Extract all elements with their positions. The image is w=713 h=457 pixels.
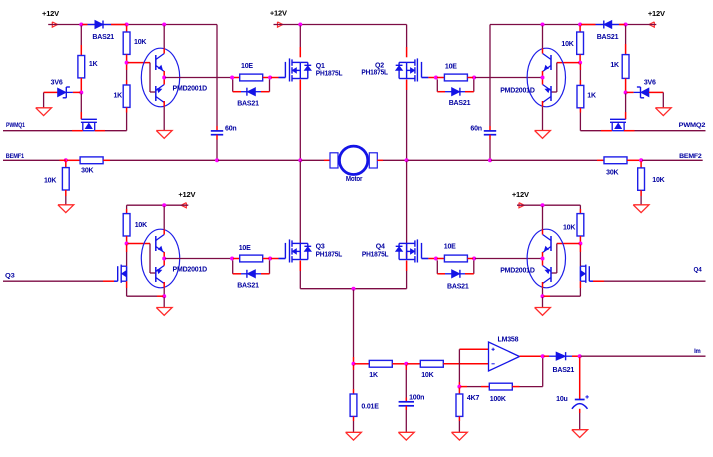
input MOSFET Q7 (Q3 net)	[118, 265, 127, 283]
net PWMQ1	[3, 113, 127, 131]
transistor pair U3 PMD2001D (lower left)	[141, 229, 207, 288]
capacitor C3 100n	[399, 365, 425, 433]
resistor R18 10K (sense)	[407, 360, 443, 379]
node BEMF2/10K junction	[639, 158, 643, 162]
zener D2 3V6 (left)	[44, 79, 81, 98]
node feedback node	[457, 385, 461, 389]
svg-text:+12V: +12V	[512, 190, 529, 199]
input MOSFET Q6 (PWMQ2)	[610, 94, 626, 131]
svg-text:+12V: +12V	[178, 190, 195, 199]
wire Q2 source down	[406, 80, 408, 160]
resistor R4 10E (Q1 gate)	[233, 63, 269, 81]
svg-text:1K: 1K	[369, 372, 378, 379]
wire motor left lead	[301, 159, 330, 161]
wire op-amp output	[520, 355, 542, 357]
svg-text:+12V: +12V	[648, 9, 665, 18]
svg-text:BEMF2: BEMF2	[679, 153, 702, 160]
power port +12V (mid right)	[512, 190, 529, 208]
power port +12V (top middle)	[270, 9, 287, 27]
wire Q8 trunk	[544, 245, 581, 297]
resistor R6 10K (top right)	[561, 26, 583, 62]
node bridge-left/motor junction	[298, 158, 302, 162]
svg-text:100n: 100n	[409, 395, 424, 402]
svg-text:Q3: Q3	[316, 244, 325, 251]
resistor R8 30K (left)	[67, 157, 110, 175]
node rail/PMD collector (mid right)	[541, 203, 545, 207]
svg-text:PMD2001D: PMD2001D	[500, 87, 535, 94]
input MOSFET Q8 (Q4 net)	[580, 265, 589, 283]
svg-text:Q1: Q1	[316, 63, 325, 70]
wire +12V top-right rail	[490, 25, 656, 127]
svg-text:1K: 1K	[89, 61, 98, 68]
svg-text:30K: 30K	[81, 168, 93, 175]
wire left bridge column lower	[299, 161, 301, 258]
wire Q1 source down	[299, 80, 301, 160]
svg-text:60n: 60n	[225, 126, 236, 133]
resistor R12 10K (lower left)	[123, 209, 147, 243]
motor M1	[330, 146, 377, 183]
wire right bridge column lower	[406, 161, 408, 258]
resistor R3 1K (divider, top left)	[113, 64, 130, 113]
wire motor right lead	[377, 159, 405, 161]
wire Q4 source down	[406, 261, 408, 289]
svg-text:10u: 10u	[556, 396, 567, 403]
resistor R17 1K (sense)	[355, 360, 406, 379]
node base junction (top right)	[578, 61, 582, 65]
node 1K/zener junction	[79, 91, 83, 95]
wire mid-right rail	[517, 205, 580, 209]
svg-text:+12V: +12V	[42, 9, 59, 18]
ground (10u)	[572, 430, 588, 438]
svg-text:10K: 10K	[135, 222, 147, 229]
ground (top right PMD)	[535, 107, 551, 139]
wire Q2 gate lead	[422, 77, 435, 79]
resistor R14 10E (Q4 gate)	[437, 244, 473, 262]
svg-text:10E: 10E	[444, 244, 456, 251]
svg-text:PWMQ1: PWMQ1	[6, 122, 25, 129]
wire +12V top-left rail	[48, 25, 217, 127]
node rail/PMD collector (mid left)	[162, 203, 166, 207]
node 1K/zener junction (right)	[624, 91, 628, 95]
power port +12V (top left)	[42, 9, 59, 27]
wire base to PMD (top left)	[128, 63, 156, 92]
svg-text:10K: 10K	[421, 372, 433, 379]
node PMD output (lower left)	[162, 257, 166, 261]
node rail/bridge-left junction	[298, 23, 302, 27]
wire bridge bottom rail	[300, 288, 406, 290]
svg-text:Q3: Q3	[5, 273, 15, 280]
power port +12V (top right)	[648, 9, 665, 27]
svg-text:0.01E: 0.01E	[361, 404, 379, 411]
svg-text:10K: 10K	[652, 177, 664, 184]
wire PMD collector to rail (top left)	[163, 26, 165, 49]
node source node (lower right)	[541, 294, 545, 298]
node Q1 gate res right	[268, 76, 272, 80]
wire PMD output to gate resistor	[165, 77, 231, 79]
wire Q3 gate lead	[271, 258, 285, 260]
svg-text:10E: 10E	[239, 245, 251, 252]
wire Q4 gate lead	[422, 258, 435, 260]
wire Q7 trunk	[127, 245, 164, 297]
diode D1 BAS21 (top left rail)	[82, 21, 125, 42]
wire sense to op-amp inverting input	[443, 363, 488, 365]
node rail/PMD collector junction	[162, 23, 166, 27]
node PMD output (lower right)	[541, 257, 545, 261]
wire base to PMD (top right)	[551, 63, 579, 92]
MOSFET Q1 PH1875L	[285, 58, 343, 81]
node PMD output (top left)	[162, 76, 166, 80]
node rail/10K junction	[125, 23, 129, 27]
wire op-amp non-inverting input	[459, 349, 488, 385]
power port +12V (mid left)	[178, 190, 195, 208]
svg-text:10K: 10K	[134, 39, 146, 46]
svg-text:PMD2001D: PMD2001D	[173, 85, 208, 92]
svg-text:BAS21: BAS21	[597, 34, 619, 41]
ground (left zener)	[36, 93, 52, 116]
MOSFET Q2 PH1875L	[361, 58, 421, 81]
wire mid-left rail	[127, 205, 189, 209]
zener D6 3V6 (right)	[627, 79, 664, 108]
svg-text:3V6: 3V6	[644, 79, 656, 86]
svg-text:BAS21: BAS21	[92, 34, 114, 41]
net Im	[581, 348, 706, 356]
svg-text:LM358: LM358	[498, 336, 519, 343]
svg-text:1K: 1K	[113, 93, 122, 100]
net Q4	[589, 267, 705, 282]
svg-text:PH1875L: PH1875L	[316, 70, 343, 77]
node Q4 gate res left	[434, 257, 438, 261]
node base junction (lower right)	[578, 242, 582, 246]
wire to 30K right	[491, 159, 597, 161]
node bridge-right/motor junction	[405, 158, 409, 162]
resistor R10 30K (right)	[597, 157, 640, 176]
transistor pair U2 PMD2001D (top right)	[500, 48, 565, 107]
net PWMQ2	[580, 113, 705, 131]
svg-text:PH1875L: PH1875L	[361, 70, 388, 77]
ground (BEMF1 10K)	[58, 205, 74, 213]
resistor R19 4K7	[456, 388, 479, 433]
resistor R15 10K (lower right)	[563, 209, 584, 243]
svg-text:10K: 10K	[563, 225, 575, 232]
svg-text:BAS21: BAS21	[447, 284, 469, 291]
MOSFET Q3 PH1875L	[285, 239, 343, 262]
capacitor C1 60n (left)	[211, 126, 237, 160]
resistor R16 0.01E shunt	[350, 365, 379, 433]
node 60n/BEMF junction (right)	[488, 158, 492, 162]
net BEMF1	[3, 153, 60, 160]
svg-text:BAS21: BAS21	[553, 367, 575, 374]
svg-text:PWMQ2: PWMQ2	[679, 122, 706, 129]
svg-text:100K: 100K	[490, 396, 506, 403]
node base junction (lower left)	[125, 242, 129, 246]
resistor R21 1K (divider, top right)	[577, 64, 596, 113]
wire BEMF1 to 60n	[110, 159, 216, 161]
diode D7 BAS21 (Q3 gate)	[233, 260, 270, 289]
op-amp U5 LM358	[489, 336, 520, 371]
ground (lower left PMD)	[156, 297, 172, 315]
resistor R9 10K (BEMF1 divider)	[44, 161, 69, 205]
diode D4 BAS21 (Q2 gate)	[437, 79, 474, 106]
ground (100n)	[398, 432, 414, 440]
node Q1 gate res left	[230, 76, 234, 80]
wire PMD collector to rail (lower left)	[163, 206, 165, 229]
ground (BEMF2 10K)	[633, 205, 649, 213]
node shunt top	[352, 362, 356, 366]
svg-text:BAS21: BAS21	[237, 101, 259, 108]
node BEMF1/10K junction	[60, 158, 68, 162]
ground (shunt)	[346, 432, 362, 440]
wire Q3 source down	[299, 261, 301, 289]
svg-text:1K: 1K	[610, 62, 619, 69]
node rail/1K junction (right)	[624, 23, 628, 27]
resistor R5 10E (Q2 gate)	[437, 64, 473, 81]
svg-text:PMD2001D: PMD2001D	[500, 268, 535, 275]
node rail/PMD collector junction (right)	[541, 23, 545, 27]
node rail/bridge-right corner wire	[406, 25, 408, 58]
svg-text:60n: 60n	[470, 126, 481, 133]
wire Q2 gate to PMD right	[475, 77, 541, 79]
diode D3 BAS21 (Q1 gate)	[233, 79, 270, 107]
svg-text:PH1875L: PH1875L	[362, 251, 389, 258]
node bridge bottom center	[352, 287, 356, 291]
wire shunt drop	[353, 290, 355, 363]
net Q3	[3, 273, 118, 282]
ground (lower right PMD)	[535, 297, 551, 315]
input MOSFET Q5 (PWMQ1)	[81, 94, 97, 131]
node source node (lower left)	[162, 294, 166, 298]
wire PMD down to source node (lower left)	[163, 288, 165, 296]
wire 60n to bridge left	[218, 159, 299, 161]
svg-text:BAS21: BAS21	[449, 100, 471, 107]
transistor pair U1 PMD2001D (top left)	[141, 48, 207, 107]
node 60n/BEMF junction (left)	[215, 158, 219, 162]
svg-text:4K7: 4K7	[467, 395, 480, 402]
resistor R7 1K (top right)	[610, 26, 629, 92]
node sense/100n junction	[404, 362, 408, 366]
wire base to PMD (lower right)	[551, 244, 579, 274]
diode D5 BAS21 (top right rail)	[581, 21, 625, 42]
wire PMD output to Q3 gate resistor	[165, 258, 231, 260]
node Q4 gate res right	[472, 257, 476, 261]
wire PMD collector to rail (lower right)	[542, 206, 544, 229]
wire base to PMD (lower left)	[128, 244, 156, 274]
svg-text:PH1875L: PH1875L	[316, 251, 343, 258]
wire top middle rail	[274, 24, 407, 26]
ground (right zener)	[655, 108, 671, 116]
node base junction (top left)	[125, 61, 129, 65]
svg-text:30K: 30K	[606, 169, 618, 176]
capacitor C4 10u (polarized)	[556, 357, 589, 430]
svg-text:10K: 10K	[561, 41, 573, 48]
node output/feedback junction	[541, 354, 545, 358]
svg-text:1K: 1K	[587, 93, 596, 100]
diode D8 BAS21 (Q4 gate)	[437, 260, 474, 290]
node Q3 gate res right	[268, 257, 272, 261]
svg-text:Q4: Q4	[376, 244, 385, 251]
resistor R20 100K (feedback)	[460, 357, 542, 403]
svg-text:PMD2001D: PMD2001D	[173, 266, 208, 273]
node Q2 gate res left	[434, 76, 438, 80]
wire PMD collector to rail (top right)	[542, 26, 544, 49]
svg-text:10E: 10E	[445, 64, 457, 71]
node Q3 gate res left	[230, 257, 234, 261]
node output/10u junction	[578, 354, 582, 358]
svg-text:Q4: Q4	[694, 267, 702, 274]
wire left bridge column upper	[299, 26, 301, 58]
resistor R13 10E (Q3 gate)	[233, 245, 269, 262]
diode D9 BAS21 (output)	[544, 352, 579, 374]
transistor pair U4 PMD2001D (lower right)	[500, 229, 565, 288]
svg-text:BEMF1: BEMF1	[6, 153, 25, 160]
MOSFET Q4 PH1875L	[362, 239, 422, 262]
resistor R11 10K (BEMF2 divider)	[638, 161, 665, 205]
wire Q1 gate lead	[271, 77, 285, 79]
node PMD output (top right)	[541, 76, 545, 80]
capacitor C2 60n (right)	[470, 126, 496, 160]
resistor R2 10K (top left)	[123, 26, 146, 62]
svg-text:10E: 10E	[241, 63, 253, 70]
wire Q4 gate to PMD (lower right)	[475, 258, 541, 260]
wire PMD down to source node (lower right)	[542, 288, 544, 296]
ground (top left PMD)	[156, 107, 172, 139]
net BEMF2	[642, 153, 703, 160]
svg-text:10K: 10K	[44, 177, 56, 184]
node rail/1K junction	[79, 23, 83, 27]
svg-text:Motor: Motor	[346, 176, 363, 183]
node rail/10K junction (right)	[578, 23, 582, 27]
node Q2 gate res right	[472, 76, 476, 80]
resistor R1 1K (top left)	[78, 26, 98, 92]
svg-text:BAS21: BAS21	[237, 283, 259, 290]
wire motor row to 60n right	[408, 159, 489, 161]
svg-text:Im: Im	[694, 348, 701, 355]
svg-text:3V6: 3V6	[51, 79, 63, 86]
svg-text:+12V: +12V	[270, 9, 287, 18]
ground (4K7)	[452, 432, 468, 440]
